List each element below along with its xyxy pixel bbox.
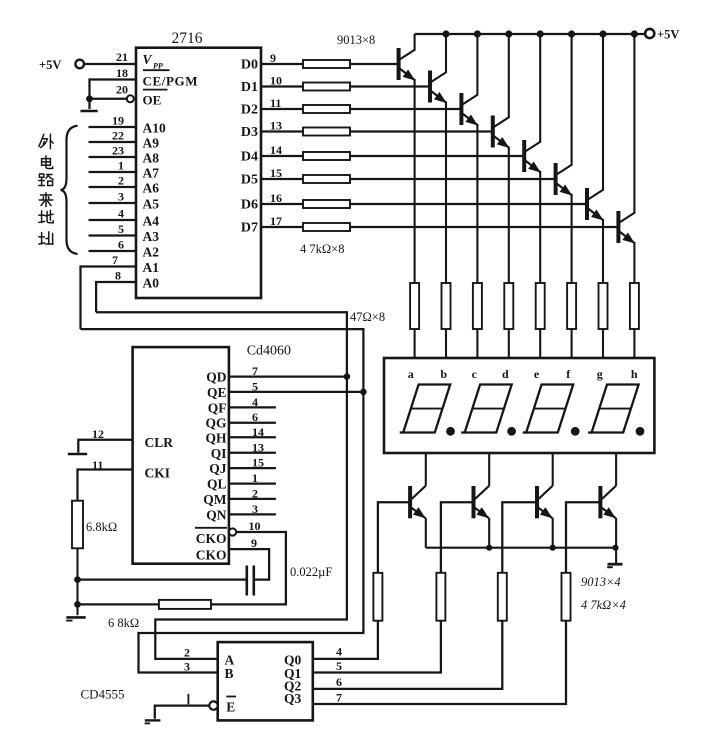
svg-text:13: 13 bbox=[252, 440, 264, 454]
overline OE bbox=[143, 89, 168, 91]
svg-text:A5: A5 bbox=[143, 197, 160, 212]
wire D5 stub (pin 15) bbox=[261, 178, 303, 180]
wire D3 stub (pin 13) bbox=[261, 130, 303, 132]
svg-text:4 7kΩ×4: 4 7kΩ×4 bbox=[581, 598, 626, 612]
wire QM stub (pin 2) bbox=[229, 498, 276, 500]
wire address stub pin 23 (A8) bbox=[89, 156, 137, 158]
wire emitter Q12 to common rail bbox=[615, 518, 617, 548]
junction: rail / Q4 collector bbox=[505, 30, 512, 37]
wire segment a input bbox=[414, 329, 416, 359]
svg-text:14: 14 bbox=[252, 425, 264, 439]
wire emitter Q8 to segment resistor bbox=[633, 242, 635, 283]
inversion bubble CKO pin 10 bbox=[229, 528, 236, 535]
svg-text:9: 9 bbox=[251, 536, 257, 550]
wire emitter Q10 to common rail bbox=[488, 518, 490, 548]
wire address stub pin 4 (A4) bbox=[89, 219, 137, 221]
svg-text:2: 2 bbox=[252, 486, 258, 500]
wire base Q12 bbox=[566, 502, 600, 573]
wire digit 3 common pin bbox=[552, 453, 554, 486]
svg-text:4: 4 bbox=[336, 645, 342, 659]
wire capacitor to CKO pin 9 bbox=[229, 549, 269, 580]
wire base D7 to Q8 bbox=[350, 226, 618, 228]
transistor Q9 9013 (digit driver) bbox=[410, 486, 426, 519]
svg-text:15: 15 bbox=[270, 166, 282, 180]
svg-text:D4: D4 bbox=[241, 150, 258, 165]
resistor R12 47 ohm (segment) bbox=[504, 283, 513, 329]
wire collector Q8 to +5V rail bbox=[633, 34, 635, 214]
wire D7 stub (pin 17) bbox=[261, 226, 303, 228]
svg-text:0.022µF: 0.022µF bbox=[290, 565, 332, 579]
transistor Q5 9013 bbox=[524, 140, 541, 173]
svg-text:9: 9 bbox=[270, 51, 276, 65]
ground (below OE) bbox=[88, 99, 90, 109]
svg-text:6.8kΩ: 6.8kΩ bbox=[86, 520, 117, 534]
wire address stub pin 6 (A2) bbox=[89, 250, 137, 252]
wire CKO(inv) pin 10 feedback bbox=[211, 532, 286, 604]
wire emitter Q7 to segment resistor bbox=[602, 219, 604, 283]
inversion bubble OE pin 20 bbox=[127, 95, 134, 102]
svg-text:D0: D0 bbox=[241, 58, 258, 73]
wire address stub pin 5 (A3) bbox=[89, 234, 137, 236]
svg-text:6: 6 bbox=[336, 675, 342, 689]
wire collector Q2 to +5V rail bbox=[445, 34, 447, 73]
svg-text:21: 21 bbox=[116, 50, 128, 64]
svg-text:14: 14 bbox=[270, 143, 282, 157]
wire digit 1 common pin bbox=[425, 453, 427, 486]
wire emitter Q5 to segment resistor bbox=[539, 171, 541, 283]
svg-text:CKI: CKI bbox=[145, 466, 171, 481]
decoder U3 CD4555 bbox=[218, 642, 313, 720]
wire digit 2 common pin bbox=[488, 453, 490, 486]
svg-text:15: 15 bbox=[252, 456, 264, 470]
wire QJ stub (pin 15) bbox=[229, 467, 276, 469]
svg-text:8: 8 bbox=[115, 269, 121, 283]
wire emitter Q2 to segment resistor bbox=[445, 102, 447, 284]
wire CLR (pin 12) to contact bbox=[78, 440, 132, 453]
digit 3 decimal point bbox=[571, 427, 580, 436]
wire base D6 to Q7 bbox=[350, 203, 587, 205]
svg-text:7: 7 bbox=[336, 691, 342, 705]
svg-text:4 7kΩ×8: 4 7kΩ×8 bbox=[300, 242, 344, 256]
svg-text:Q3: Q3 bbox=[284, 691, 302, 706]
overline CKO bbox=[195, 527, 227, 529]
digit 1 glyph bbox=[400, 385, 451, 433]
svg-text:6 8kΩ: 6 8kΩ bbox=[108, 616, 139, 630]
junction CE/OE ground node bbox=[86, 95, 93, 102]
transistor Q11 9013 (digit driver) bbox=[537, 486, 553, 519]
wire segment d input bbox=[508, 329, 510, 359]
svg-text:11: 11 bbox=[270, 96, 281, 110]
wire base Q10 bbox=[441, 502, 474, 573]
resistor R8 4.7k (base) bbox=[303, 223, 350, 231]
transistor Q6 9013 bbox=[555, 163, 572, 196]
junction capacitor node bbox=[74, 576, 81, 583]
svg-text:+5V: +5V bbox=[39, 58, 61, 72]
junction: rail / Q7 collector bbox=[599, 30, 606, 37]
junction QE / B net bbox=[360, 389, 367, 396]
svg-text:20: 20 bbox=[116, 83, 128, 97]
wire base D1 to Q2 bbox=[350, 85, 430, 87]
svg-text:d: d bbox=[502, 367, 509, 381]
svg-text:PP: PP bbox=[153, 62, 163, 71]
wire pin 20 OE bbox=[90, 98, 127, 100]
inversion bubble E pin 1 bbox=[209, 701, 217, 709]
wire Q0 output (4) to R17 bbox=[313, 621, 378, 659]
wire segment b input bbox=[445, 329, 447, 359]
junction: rail / Q6 collector bbox=[568, 30, 575, 37]
wire base D3 to Q4 bbox=[350, 130, 493, 132]
svg-text:19: 19 bbox=[112, 114, 124, 128]
caption char 来 bbox=[39, 193, 53, 207]
caption char 路 bbox=[39, 174, 53, 186]
node B net: A1-QE-4555B vertical bbox=[81, 329, 364, 672]
digit 4 glyph bbox=[588, 385, 639, 433]
transistor Q3 9013 bbox=[461, 93, 478, 126]
transistor Q10 9013 (digit driver) bbox=[474, 486, 490, 519]
resistor R19 4.7k (digit base) bbox=[498, 573, 507, 621]
wire digit 4 common pin bbox=[615, 453, 617, 486]
svg-text:+5V: +5V bbox=[657, 28, 679, 42]
wire CKI (pin 11) to R21 bbox=[78, 470, 133, 501]
svg-text:QG: QG bbox=[205, 416, 227, 431]
transistor Q2 9013 bbox=[430, 71, 447, 104]
wire address stub pin 1 (A7) bbox=[89, 171, 137, 173]
junction: rail / Q3 collector bbox=[474, 30, 481, 37]
svg-text:22: 22 bbox=[112, 129, 124, 143]
svg-text:1: 1 bbox=[118, 159, 124, 173]
svg-text:e: e bbox=[534, 367, 540, 381]
wire QN stub (pin 3) bbox=[229, 513, 276, 515]
svg-text:D1: D1 bbox=[241, 80, 258, 95]
wire D2 stub (pin 11) bbox=[261, 108, 303, 110]
resistor R3 4.7k (base) bbox=[303, 105, 350, 113]
svg-text:CLR: CLR bbox=[145, 435, 174, 450]
wire base D4 to Q5 bbox=[350, 155, 524, 157]
wire E(inv) to ground bbox=[155, 706, 210, 719]
svg-text:3: 3 bbox=[252, 502, 258, 516]
svg-text:CD4555: CD4555 bbox=[81, 687, 125, 702]
svg-text:QM: QM bbox=[203, 492, 227, 507]
caption char 电 bbox=[42, 156, 53, 169]
resistor R7 4.7k (base) bbox=[303, 200, 350, 208]
svg-text:A4: A4 bbox=[143, 214, 160, 229]
counter U2 Cd4060 bbox=[133, 347, 229, 564]
svg-text:2716: 2716 bbox=[172, 30, 203, 47]
wire Q3 output (7) to R20 bbox=[313, 621, 566, 704]
svg-text:D5: D5 bbox=[241, 173, 258, 188]
wire base Q9 bbox=[378, 502, 410, 573]
digit 2 glyph bbox=[461, 385, 512, 433]
svg-text:Cd4060: Cd4060 bbox=[247, 344, 291, 359]
wire QH stub (pin 14) bbox=[229, 436, 276, 438]
svg-text:QD: QD bbox=[206, 370, 227, 385]
wire segment c input bbox=[476, 329, 478, 359]
junction: rail / Q2 collector bbox=[442, 30, 449, 37]
wire QL stub (pin 1) bbox=[229, 482, 276, 484]
wire collector Q6 to +5V rail bbox=[571, 34, 573, 166]
svg-text:2: 2 bbox=[118, 174, 124, 188]
wire segment g input bbox=[602, 329, 604, 359]
svg-text:QJ: QJ bbox=[209, 461, 227, 476]
svg-text:23: 23 bbox=[112, 144, 124, 158]
svg-text:D3: D3 bbox=[241, 125, 258, 140]
wire emitter Q9 to common rail bbox=[425, 518, 427, 548]
wire A0 (pin 8) to node A net bbox=[96, 282, 136, 312]
resistor R4 4.7k (base) bbox=[303, 128, 350, 136]
EPROM U1 2716 bbox=[136, 48, 261, 298]
resistor R2 4.7k (base) bbox=[303, 83, 350, 91]
resistor R14 47 ohm (segment) bbox=[567, 283, 576, 329]
junction QD / A net bbox=[344, 373, 351, 380]
svg-text:2: 2 bbox=[184, 646, 190, 660]
junction emitter rail bbox=[486, 545, 492, 551]
wire address stub pin 3 (A5) bbox=[89, 202, 137, 204]
svg-text:QN: QN bbox=[206, 507, 227, 522]
wire QI stub (pin 13) bbox=[229, 452, 276, 454]
junction: rail / Q8 collector bbox=[631, 30, 638, 37]
svg-text:D2: D2 bbox=[241, 103, 258, 118]
wire D4 stub (pin 14) bbox=[261, 155, 303, 157]
wire base D5 to Q6 bbox=[350, 178, 556, 180]
brace: external address input group bbox=[61, 126, 78, 254]
svg-text:17: 17 bbox=[270, 214, 282, 228]
svg-text:D6: D6 bbox=[241, 198, 258, 213]
svg-text:QL: QL bbox=[207, 477, 227, 492]
pin number 1 (tick) bbox=[187, 694, 189, 704]
svg-text:47Ω×8: 47Ω×8 bbox=[350, 310, 385, 324]
wire collector Q1 to +5V rail bbox=[414, 34, 416, 51]
svg-text:B: B bbox=[225, 666, 234, 681]
wire emitter Q11 to common rail bbox=[552, 518, 554, 548]
resistor R11 47 ohm (segment) bbox=[473, 283, 482, 329]
svg-text:E: E bbox=[226, 700, 235, 715]
svg-text:c: c bbox=[472, 367, 478, 381]
svg-text:QH: QH bbox=[205, 430, 227, 445]
svg-text:h: h bbox=[631, 367, 638, 381]
resistor R20 4.7k (digit base) bbox=[562, 573, 571, 621]
wire collector Q5 to +5V rail bbox=[539, 34, 541, 143]
resistor R18 4.7k (digit base) bbox=[436, 573, 445, 621]
emitter common rail bbox=[426, 547, 616, 549]
wire emitter Q6 to segment resistor bbox=[571, 194, 573, 283]
wire segment f input bbox=[571, 329, 573, 359]
svg-text:V: V bbox=[143, 52, 153, 67]
svg-text:A6: A6 bbox=[143, 181, 160, 196]
svg-text:3: 3 bbox=[184, 660, 190, 674]
resistor R9 47 ohm (segment) bbox=[410, 283, 419, 329]
ground (emitter rail) bbox=[615, 548, 617, 563]
svg-text:1: 1 bbox=[252, 471, 258, 485]
caption char 外 bbox=[39, 134, 53, 148]
svg-text:A9: A9 bbox=[143, 136, 160, 151]
ground (oscillator) bbox=[66, 616, 85, 619]
svg-text:4: 4 bbox=[118, 207, 124, 221]
wire QD (pin 7) bbox=[229, 375, 347, 377]
digit 2 decimal point bbox=[507, 427, 516, 436]
overline E bbox=[226, 696, 236, 698]
+5V rail (top) bbox=[415, 33, 645, 35]
svg-text:18: 18 bbox=[116, 66, 128, 80]
svg-text:7: 7 bbox=[112, 253, 118, 267]
svg-text:QI: QI bbox=[211, 446, 227, 461]
svg-text:16: 16 bbox=[270, 191, 282, 205]
wire address stub pin 19 (A10) bbox=[89, 126, 137, 128]
transistor Q1 9013 bbox=[398, 48, 415, 81]
svg-text:CE/PGM: CE/PGM bbox=[143, 74, 199, 89]
wire emitter Q4 to segment resistor bbox=[508, 147, 510, 284]
resistor R17 4.7k (digit base) bbox=[373, 573, 382, 621]
capacitor C1 0.022uF bbox=[246, 566, 249, 596]
digit 4 decimal point bbox=[636, 427, 645, 436]
resistor R22 6.8k (feedback) bbox=[159, 600, 211, 609]
ground (E enable) bbox=[145, 719, 161, 721]
resistor R10 47 ohm (segment) bbox=[442, 283, 451, 329]
transistor Q8 9013 bbox=[618, 211, 635, 244]
wire R21 to ground bbox=[76, 548, 78, 615]
svg-text:A0: A0 bbox=[143, 276, 160, 291]
transistor Q7 9013 bbox=[587, 188, 604, 221]
svg-text:g: g bbox=[597, 367, 603, 381]
+5V terminal (top right) bbox=[645, 29, 654, 38]
svg-text:A10: A10 bbox=[143, 121, 166, 136]
wire emitter Q1 to segment resistor bbox=[414, 79, 416, 283]
wire address stub pin 22 (A9) bbox=[89, 141, 137, 143]
junction emitter rail bbox=[612, 545, 618, 551]
svg-text:4: 4 bbox=[252, 395, 258, 409]
wire collector Q7 to +5V rail bbox=[602, 34, 604, 191]
svg-text:QF: QF bbox=[208, 400, 227, 415]
contact bar (CLR) bbox=[68, 453, 87, 455]
resistor R1 4.7k (base) bbox=[303, 60, 350, 68]
caption char 址 bbox=[39, 232, 53, 244]
wire capacitor left lead bbox=[78, 578, 246, 580]
svg-text:6: 6 bbox=[118, 238, 124, 252]
svg-text:D7: D7 bbox=[241, 221, 258, 236]
wire emitter Q3 to segment resistor bbox=[476, 124, 478, 283]
svg-text:9013×8: 9013×8 bbox=[337, 33, 375, 47]
resistor R16 47 ohm (segment) bbox=[630, 283, 639, 329]
node A net: A0-QD-4555A vertical bbox=[96, 312, 347, 659]
wire base Q11 bbox=[502, 502, 537, 573]
svg-text:A8: A8 bbox=[143, 151, 160, 166]
resistor R15 47 ohm (segment) bbox=[599, 283, 608, 329]
svg-text:A3: A3 bbox=[143, 229, 160, 244]
caption char 地 bbox=[39, 210, 53, 222]
svg-text:10: 10 bbox=[270, 74, 282, 88]
svg-text:CKO: CKO bbox=[196, 531, 227, 546]
wire base D2 to Q3 bbox=[350, 108, 461, 110]
svg-text:QE: QE bbox=[207, 385, 227, 400]
4-digit 7-segment LED display DS1 bbox=[384, 358, 654, 453]
transistor Q12 9013 (digit driver) bbox=[600, 486, 616, 519]
wire collector Q4 to +5V rail bbox=[508, 34, 510, 118]
svg-text:A1: A1 bbox=[143, 260, 160, 275]
svg-text:5: 5 bbox=[118, 222, 124, 236]
svg-text:b: b bbox=[440, 367, 447, 381]
resistor R21 6.8k bbox=[72, 501, 83, 549]
wire collector Q3 to +5V rail bbox=[476, 34, 478, 96]
wire D1 stub (pin 10) bbox=[261, 85, 303, 87]
transistor Q4 9013 bbox=[492, 116, 509, 149]
svg-text:OE: OE bbox=[143, 93, 162, 108]
wire D6 stub (pin 16) bbox=[261, 203, 303, 205]
resistor R13 47 ohm (segment) bbox=[536, 283, 545, 329]
resistor R5 4.7k (base) bbox=[303, 152, 350, 160]
wire QF stub (pin 4) bbox=[229, 406, 276, 408]
wire address stub pin 2 (A6) bbox=[89, 186, 137, 188]
wire base D0 to Q1 bbox=[350, 63, 399, 65]
wire A1 (pin 7) to node B net bbox=[81, 267, 137, 330]
svg-text:A2: A2 bbox=[143, 245, 160, 260]
wire QG stub (pin 6) bbox=[229, 422, 276, 424]
svg-text:6: 6 bbox=[252, 410, 258, 424]
junction resistor node bbox=[74, 601, 81, 608]
digit 1 decimal point bbox=[446, 427, 455, 436]
svg-text:13: 13 bbox=[270, 119, 282, 133]
svg-text:a: a bbox=[408, 367, 414, 381]
digit 3 glyph bbox=[523, 385, 574, 433]
wire QE (pin 5) bbox=[229, 391, 364, 393]
wire R22 to oscillator node bbox=[78, 603, 159, 605]
junction: rail / Q5 collector bbox=[537, 30, 544, 37]
wire D0 stub (pin 9) bbox=[261, 63, 303, 65]
wire +5V to pin 21 Vpp bbox=[84, 63, 136, 65]
svg-text:A7: A7 bbox=[143, 166, 160, 181]
svg-text:CKO: CKO bbox=[196, 548, 227, 563]
svg-text:9013×4: 9013×4 bbox=[581, 575, 621, 589]
wire segment e input bbox=[539, 329, 541, 359]
wire pin 18 CE/PGM bbox=[90, 80, 137, 99]
wire Q2 output (6) to R19 bbox=[313, 621, 503, 689]
wire segment h input bbox=[633, 329, 635, 359]
overline CE bbox=[143, 69, 170, 71]
resistor R6 4.7k (base) bbox=[303, 175, 350, 183]
svg-text:5: 5 bbox=[336, 659, 342, 673]
svg-text:3: 3 bbox=[118, 190, 124, 204]
wire Q1 output (5) to R18 bbox=[313, 621, 441, 673]
junction emitter rail bbox=[550, 545, 556, 551]
